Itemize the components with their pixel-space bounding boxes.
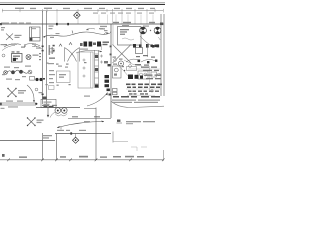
diamond marker bottom [72,134,78,144]
secondary dim ticks right [99,15,153,25]
interior wall vertical center-right [110,24,112,118]
closet room bottom-left [41,99,56,107]
note rows light [112,100,160,104]
squiggle inside room [122,38,134,40]
ceiling fans pair bottom [55,108,67,114]
verticals from dimension line to top wall [57,12,147,24]
dark appliance boxes right [128,75,143,80]
water closet box right [113,66,122,78]
text near wall x48 [49,26,54,30]
switch arrows center [59,44,62,47]
misc small text specks upper left [1,44,91,97]
secondary dimension labels right [93,13,154,14]
W.I.C. closet box [57,71,71,83]
dark fixture dots [35,78,38,81]
stair text along wall [49,45,53,55]
expansion note [117,120,156,125]
text labels below wall right [100,26,149,30]
curve arrow to panel [87,93,108,107]
short stub wall [101,44,103,50]
arc below top wall mid [86,28,95,30]
D label [2,154,5,157]
left bottom wall double [0,103,36,105]
label above closet [122,25,129,26]
fixture X mid-left [8,89,16,97]
patio light marks [131,147,147,151]
left interior double wall [43,11,47,104]
small marks near arc [35,88,38,91]
mid wiring curve [76,50,102,53]
right interior wall lower [112,132,114,143]
corridor light wall [112,24,114,45]
text labels above wall right [113,22,155,23]
kitchen cabinet outline [78,52,93,88]
garage top wall [55,133,111,135]
header marks right [133,44,159,48]
top wiring curve [43,32,109,37]
cabinet ladder wall [95,50,99,88]
double door swing arcs [65,48,80,62]
fixture X bottom-left [28,118,36,126]
right cluster boxes and text [127,67,137,71]
diamond marker top [74,12,81,19]
mid-right label rows [113,96,160,98]
fan lead curve [50,112,55,118]
wall tick blobs [56,23,69,25]
vanity box with sinks [138,71,148,79]
exhaust fan 1 [140,27,147,34]
bottom wall of plan [36,107,80,109]
wall junction blob right end [160,23,163,26]
arrowheads on wiring [43,33,109,38]
plus marks kitchen right [100,55,103,64]
bedroom box top-right [118,27,142,46]
bottom dimension line [0,159,164,161]
wiring arrow curve bottom [57,122,104,128]
wire tick [72,31,73,34]
top dimension line [2,10,164,12]
door arc bottom-left [27,85,34,101]
wiggle end of top wire [104,31,111,34]
small stacked boxes left wall [113,89,118,95]
porch post wall [42,133,44,160]
ceiling fixture under X [118,61,123,66]
riser arrow [47,108,49,116]
sheet top border [0,2,165,4]
dimension ticks [3,9,164,13]
mid wiring arrowhead [99,51,102,53]
marks above laundry box [12,51,20,52]
right exterior double wall [161,14,164,96]
driveway curve [112,102,165,108]
top exterior wall [0,23,164,25]
right cluster small specks [135,55,155,66]
specks row under great room [46,62,87,65]
extra arcs upper-left [2,46,15,51]
bottom dim slashes [7,158,164,161]
label next to fixture [15,35,22,38]
room label text inside [120,29,129,35]
receptacle circles row left [4,70,32,74]
big X attic access [113,45,132,64]
specks row y84 [46,84,71,86]
dark label cluster center [84,42,102,47]
arcs upper-left wiring [4,44,21,47]
laundry box left [12,54,23,63]
garage wall tick and labels [70,132,72,134]
door swing arc right [140,36,151,46]
text row above wall left [1,22,31,23]
wall ticks left wall [42,46,44,52]
specks left of cluster [114,59,117,62]
pantry box top-left [30,27,41,41]
bottom dim labels [19,156,144,158]
small specks left edge [1,27,5,31]
crossed outlet circle [26,55,31,60]
appliance stack right of kitchen [105,75,110,87]
wall end cap left [0,23,2,25]
wall end dark cap [42,97,46,100]
right cluster: bath arcs [126,59,140,62]
dark mark at wall top [108,64,111,66]
porch wall left [0,140,55,142]
light fixture X top-left [6,34,13,41]
garage center wall [95,108,97,161]
thin wires across cluster [116,64,129,77]
hallway wall [68,118,111,120]
speck column before wall [39,53,41,60]
wall tick blobs on center wall [110,46,112,56]
dimension text labels [15,8,155,10]
right cluster label rows dark [126,84,162,89]
garage left wall [56,134,58,161]
thin underlines in cluster [126,89,161,95]
sheet top border main line [0,3,165,5]
exhaust fan 2 [154,27,161,34]
